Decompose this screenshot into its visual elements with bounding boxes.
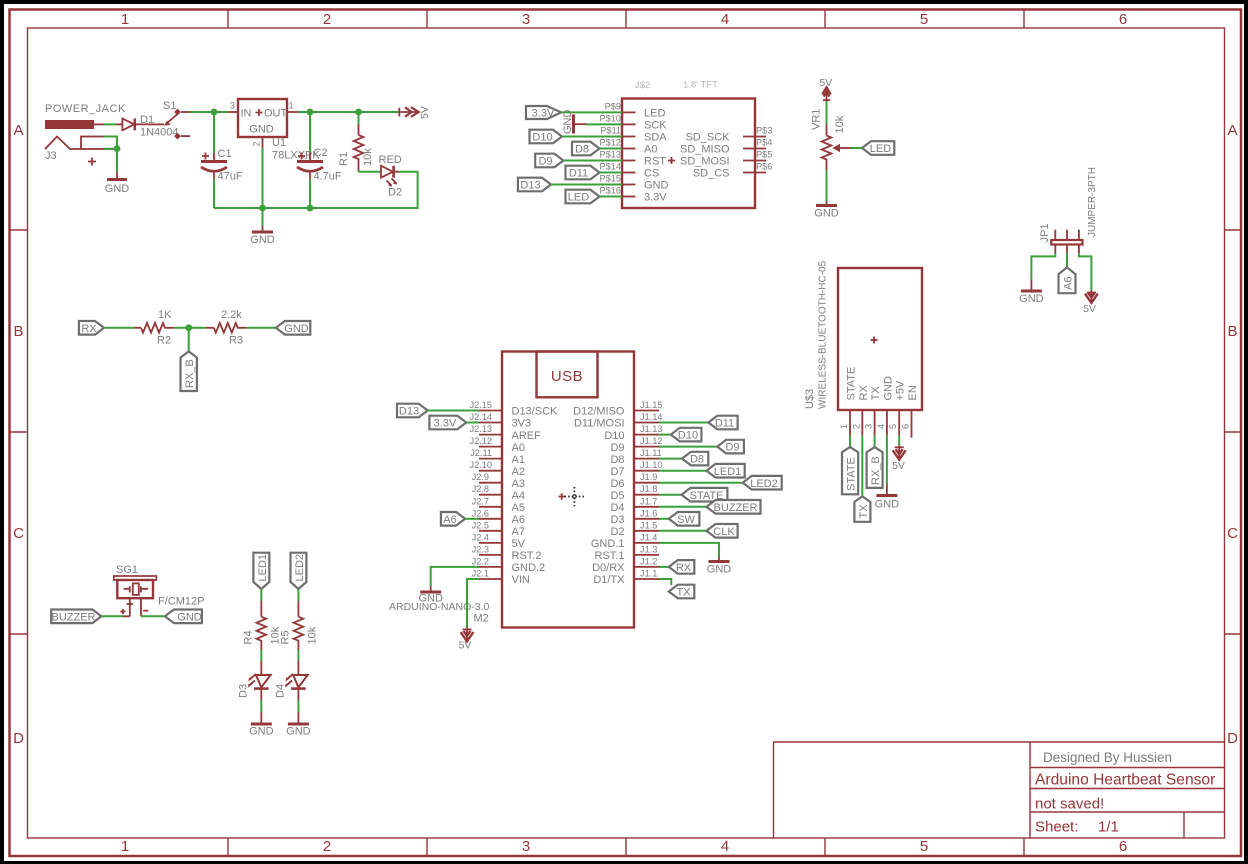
- ground symbol below U$3 pin4: [886, 484, 888, 495]
- svg-text:10k: 10k: [362, 148, 374, 166]
- svg-text:1: 1: [289, 101, 294, 111]
- net tag RX_B below U$3: [867, 447, 883, 488]
- wire D8 to A0 pin: [600, 148, 623, 150]
- net tag D8 at J2 A0: [572, 142, 600, 156]
- U$3 pin 4 GND: [886, 410, 888, 436]
- wire J1.8 to STATE tag: [659, 494, 682, 496]
- supply symbol 5V below VIN: [466, 627, 468, 640]
- svg-text:CLK: CLK: [713, 526, 735, 538]
- supply symbol 5V below JP1: [1090, 290, 1092, 302]
- J2 pin P$5 SD_MOSI: [743, 160, 766, 162]
- svg-text:B: B: [1227, 323, 1237, 340]
- diode D1 1N4004: [116, 123, 122, 125]
- svg-text:1K: 1K: [158, 309, 172, 321]
- M2 left pin stubs J2.15 to J2.1: [479, 411, 503, 580]
- title block outline: [774, 742, 1225, 838]
- svg-text:D3: D3: [238, 684, 250, 698]
- buzzer SG1 minus pin: [140, 598, 142, 616]
- net tag 3.3V at J2.14: [429, 416, 466, 430]
- svg-text:1: 1: [839, 424, 849, 429]
- arduino nano M2 box: [502, 352, 634, 628]
- buzzer SG1 top plate: [114, 576, 157, 580]
- svg-text:4: 4: [876, 424, 886, 429]
- U$3 origin cross: [871, 337, 878, 344]
- svg-text:JP1: JP1: [1039, 224, 1051, 243]
- svg-text:5V: 5V: [459, 640, 472, 652]
- svg-text:1N4004: 1N4004: [140, 127, 179, 139]
- net tag GND at divider end: [276, 321, 310, 335]
- wire R1 to D2: [359, 171, 382, 173]
- svg-text:GND: GND: [707, 564, 732, 576]
- svg-text:D3: D3: [610, 514, 624, 526]
- ground symbol below D4: [297, 712, 299, 724]
- net tag TX at J1.1: [669, 585, 695, 599]
- wire D4 to ground: [297, 689, 299, 700]
- wire J1.2 to RX tag: [659, 566, 669, 568]
- svg-text:SCK: SCK: [644, 120, 667, 132]
- wire D13 to GND pin: [551, 184, 622, 186]
- svg-text:USB: USB: [551, 368, 583, 385]
- wire D9 to RST pin: [563, 160, 622, 162]
- resistor R5: [297, 601, 299, 617]
- U$3 pin 6 EN: [911, 410, 913, 438]
- svg-text:1: 1: [121, 838, 129, 855]
- svg-text:Designed By Hussien: Designed By Hussien: [1043, 750, 1172, 765]
- svg-text:R5: R5: [280, 630, 292, 644]
- svg-text:J1.11: J1.11: [640, 448, 662, 458]
- net tag LED1 at J1.10: [707, 464, 745, 478]
- wire GND to SCK pin: [587, 123, 623, 125]
- svg-text:RST.2: RST.2: [512, 550, 542, 562]
- svg-text:JUMPER-3PTH: JUMPER-3PTH: [1087, 167, 1098, 237]
- svg-text:D1: D1: [140, 114, 154, 126]
- svg-text:J2.15: J2.15: [470, 400, 492, 410]
- svg-text:LED: LED: [568, 192, 589, 204]
- wire 3.3V tag to pin: [466, 422, 479, 424]
- wire D10 to SDA pin: [562, 136, 622, 138]
- buzzer SG1 plus pin: [123, 598, 130, 616]
- svg-text:D: D: [1227, 730, 1238, 747]
- svg-text:BUZZER: BUZZER: [714, 502, 758, 514]
- svg-text:RX: RX: [676, 562, 692, 574]
- wire R3 to GND tag: [247, 327, 276, 329]
- svg-text:SD_CS: SD_CS: [693, 168, 730, 180]
- net tag D8 at J1.11: [682, 452, 708, 466]
- svg-text:J2.8: J2.8: [472, 484, 489, 494]
- net tag STATE below U$3: [842, 447, 858, 494]
- wire RX tag to R2: [104, 327, 134, 329]
- M2 USB box: [537, 352, 598, 398]
- net tag LED at J2 3.3V: [566, 190, 600, 204]
- svg-text:D9: D9: [610, 442, 624, 454]
- svg-text:D10: D10: [678, 430, 698, 442]
- svg-text:R1: R1: [338, 152, 350, 166]
- svg-text:VR1: VR1: [811, 109, 823, 130]
- svg-text:A6: A6: [443, 514, 456, 526]
- svg-text:5V: 5V: [512, 538, 526, 550]
- connector J3 plus mark: [88, 158, 96, 166]
- svg-text:VIN: VIN: [512, 574, 530, 586]
- net tag RX at J1.2: [669, 560, 695, 574]
- svg-text:GND: GND: [249, 726, 274, 738]
- net tag BUZZER: [51, 610, 101, 624]
- svg-text:GND: GND: [250, 234, 275, 246]
- frame row ticks left: [10, 230, 28, 634]
- wire GND.2 to ground: [431, 567, 479, 586]
- svg-text:BUZZER: BUZZER: [52, 611, 96, 623]
- svg-text:GND: GND: [284, 323, 309, 335]
- svg-text:D0/RX: D0/RX: [592, 562, 625, 574]
- svg-text:D4: D4: [275, 684, 287, 698]
- svg-text:D2: D2: [388, 187, 402, 199]
- supply symbol 5V below U$3 pin5: [898, 445, 900, 458]
- frame column ticks top: [228, 10, 1024, 29]
- led D4: [293, 675, 308, 687]
- svg-text:RST: RST: [644, 156, 666, 168]
- svg-text:A: A: [1227, 122, 1237, 139]
- ground symbol below VR1: [826, 201, 828, 205]
- VR1 wiper arrow: [833, 144, 841, 153]
- wire JP1 pin3 to 5V: [1079, 253, 1092, 290]
- net tag LED2 at J1.9: [743, 476, 782, 490]
- bluetooth module U$3 box: [838, 268, 922, 410]
- svg-text:P$3: P$3: [756, 126, 772, 136]
- junction at RX_B node: [185, 324, 192, 331]
- svg-text:J1.12: J1.12: [640, 436, 662, 446]
- switch S1 common pin: [154, 123, 164, 125]
- wire D2 return loop to rail: [214, 172, 418, 208]
- svg-text:P$12: P$12: [600, 138, 621, 148]
- svg-text:D11/MOSI: D11/MOSI: [574, 418, 625, 430]
- svg-text:R4: R4: [243, 630, 255, 644]
- D2 led arrows: [387, 179, 397, 186]
- svg-text:6: 6: [901, 424, 911, 429]
- title block vertical divider: [1029, 742, 1031, 838]
- wire BUZZER tag to SG1: [101, 615, 123, 617]
- svg-text:GND: GND: [875, 499, 900, 511]
- svg-text:D10: D10: [604, 430, 624, 442]
- junction at C2 branch: [307, 109, 314, 116]
- svg-text:LED: LED: [644, 108, 665, 120]
- ground symbol rotated at J2 SCK: [572, 115, 575, 134]
- jumper JP1 body: [1051, 240, 1082, 245]
- wire J1.1 to TX tag: [659, 579, 671, 585]
- svg-text:SD_MOSI: SD_MOSI: [680, 156, 730, 168]
- svg-text:J1.1: J1.1: [640, 569, 657, 579]
- svg-text:TX: TX: [858, 504, 870, 519]
- resistor R4: [260, 601, 262, 617]
- svg-text:3.3V: 3.3V: [532, 108, 555, 120]
- svg-text:3.3V: 3.3V: [644, 192, 667, 204]
- junction rail at C2: [307, 205, 314, 212]
- svg-text:J1.13: J1.13: [640, 424, 662, 434]
- svg-text:LED2: LED2: [294, 554, 306, 582]
- led D3: [256, 675, 271, 687]
- svg-text:P$13: P$13: [600, 150, 621, 160]
- svg-text:D9: D9: [538, 156, 552, 168]
- wire S1 to regulator and rail: [190, 111, 228, 113]
- svg-text:C1: C1: [218, 148, 232, 160]
- svg-text:A: A: [13, 122, 23, 139]
- svg-text:GND: GND: [177, 611, 202, 623]
- U$3 pin 5 +5V: [898, 410, 900, 436]
- svg-text:3: 3: [230, 101, 235, 111]
- junction at R1 branch: [355, 109, 362, 116]
- wire SG1 minus to GND tag: [141, 615, 165, 617]
- svg-text:C: C: [1227, 525, 1238, 542]
- svg-text:D7: D7: [610, 466, 624, 478]
- svg-text:AREF: AREF: [512, 430, 542, 442]
- net tag D10 at J2 SDA: [530, 130, 563, 144]
- wire pin2 to TX tag: [861, 436, 863, 497]
- net tag A6 at J2.6: [441, 512, 465, 526]
- M2 right pin stubs J1.15 to J1.1: [634, 411, 659, 580]
- svg-text:J1.8: J1.8: [640, 484, 657, 494]
- ground symbol below rail: [262, 208, 264, 226]
- wire LED1 tag to R4: [260, 589, 262, 601]
- svg-text:1.8' TFT: 1.8' TFT: [683, 80, 718, 91]
- svg-text:EN: EN: [907, 385, 919, 400]
- svg-text:P$6: P$6: [756, 162, 772, 172]
- svg-text:J1.10: J1.10: [640, 460, 662, 470]
- svg-text:3V3: 3V3: [512, 418, 532, 430]
- svg-text:A0: A0: [512, 442, 525, 454]
- net tag LED1: [253, 553, 269, 589]
- svg-text:2: 2: [252, 141, 262, 146]
- J2 pin P$9 LED: [622, 111, 636, 113]
- svg-text:6: 6: [1119, 838, 1127, 855]
- svg-text:6: 6: [1119, 11, 1127, 28]
- svg-text:4.7uF: 4.7uF: [314, 171, 342, 183]
- wire net GND from J3 sleeve: [104, 137, 117, 173]
- svg-text:GND: GND: [644, 180, 669, 192]
- J2 pin P$4 SD_MISO: [743, 148, 766, 150]
- svg-text:D2: D2: [610, 526, 624, 538]
- svg-text:J1.15: J1.15: [640, 400, 662, 410]
- svg-text:D11: D11: [715, 418, 734, 430]
- svg-text:2: 2: [323, 838, 331, 855]
- svg-text:J3: J3: [45, 150, 57, 162]
- net tag 3.3V at J2 LED: [526, 106, 561, 119]
- svg-text:3: 3: [864, 424, 874, 429]
- svg-text:2.2k: 2.2k: [221, 309, 242, 321]
- svg-text:P$15: P$15: [600, 174, 621, 184]
- svg-text:SDA: SDA: [644, 132, 667, 144]
- junction rail at GND drop: [259, 205, 266, 212]
- svg-text:A0: A0: [644, 144, 657, 156]
- net tag BUZZER at J1.7: [707, 500, 761, 514]
- svg-text:P$4: P$4: [756, 138, 772, 148]
- net tag D11 at J1.14: [708, 416, 737, 430]
- svg-text:SD_SCK: SD_SCK: [685, 132, 730, 144]
- svg-text:F/CM12P: F/CM12P: [158, 596, 204, 608]
- svg-text:S1: S1: [163, 100, 176, 112]
- resistor R2: [134, 327, 141, 329]
- svg-text:U$3: U$3: [804, 389, 816, 409]
- svg-text:J1.2: J1.2: [640, 556, 657, 566]
- led D2 RED: [381, 166, 393, 178]
- svg-text:CS: CS: [644, 168, 659, 180]
- svg-text:A3: A3: [512, 478, 525, 490]
- wire 3.3V to LED pin: [561, 111, 622, 113]
- svg-text:4: 4: [721, 838, 729, 855]
- wire LED2 tag to R5: [297, 589, 299, 601]
- svg-text:D8: D8: [690, 454, 704, 466]
- title block row lines: [1030, 768, 1224, 813]
- svg-text:RST.1: RST.1: [595, 550, 625, 562]
- junction at J3 sleeve corner: [114, 145, 121, 152]
- ground symbol below GND.2: [430, 586, 432, 591]
- net tag D9 at J1.12: [717, 440, 744, 454]
- J2 pin P$14 CS: [622, 172, 636, 174]
- svg-text:A4: A4: [512, 490, 525, 502]
- net tag A6 below JP1: [1059, 267, 1076, 293]
- svg-text:D8: D8: [575, 144, 589, 156]
- svg-text:D6: D6: [610, 478, 624, 490]
- wire J1.5 to CLK tag: [659, 530, 707, 532]
- svg-text:D13/SCK: D13/SCK: [512, 406, 559, 418]
- U1 pin 1 OUT: [287, 111, 298, 113]
- svg-text:D1/TX: D1/TX: [593, 574, 625, 586]
- net tag GND at SG1: [165, 610, 202, 624]
- svg-text:GND.2: GND.2: [512, 562, 546, 574]
- svg-text:WIRELESS-BLUETOOTH-HC-05: WIRELESS-BLUETOOTH-HC-05: [818, 260, 829, 409]
- wire D11 to CS pin: [600, 172, 623, 174]
- svg-text:2: 2: [851, 424, 861, 429]
- U$3 pin 3 TX: [874, 410, 876, 436]
- svg-text:STATE: STATE: [846, 457, 858, 491]
- svg-text:SW: SW: [677, 514, 695, 526]
- svg-text:47uF: 47uF: [218, 171, 243, 183]
- U$3 pin 2 RX: [861, 410, 863, 436]
- svg-text:J2.1: J2.1: [472, 569, 489, 579]
- svg-text:4: 4: [721, 11, 729, 28]
- svg-text:J1.6: J1.6: [640, 508, 657, 518]
- svg-text:D13: D13: [520, 180, 540, 192]
- svg-text:D9: D9: [725, 442, 739, 454]
- J2 pin P$6 SD_CS: [743, 172, 766, 174]
- J2 pin P$15 GND: [622, 184, 636, 186]
- M2 origin cross: [559, 493, 565, 499]
- svg-text:2: 2: [323, 11, 331, 28]
- capacitor C2: [309, 112, 311, 153]
- wire JP1 pin2 to A6 tag: [1066, 253, 1068, 267]
- svg-text:C2: C2: [314, 147, 328, 159]
- buzzer SG1 crystal marks: [133, 583, 139, 595]
- svg-text:GND.1: GND.1: [591, 538, 625, 550]
- wire A6 tag to pin: [465, 518, 479, 520]
- svg-text:A7: A7: [512, 526, 525, 538]
- svg-text:GND: GND: [562, 110, 574, 135]
- svg-text:J2.12: J2.12: [470, 436, 492, 446]
- frame row ticks right: [1225, 230, 1242, 634]
- net tag CLK at J1.5: [707, 524, 738, 538]
- svg-text:STATE: STATE: [846, 367, 858, 401]
- wire R2 to R3 with junction: [174, 327, 206, 329]
- wire D3 to ground: [260, 689, 262, 700]
- svg-text:IN: IN: [241, 108, 252, 120]
- svg-text:POWER_JACK: POWER_JACK: [45, 103, 126, 115]
- svg-text:J1.5: J1.5: [640, 520, 657, 530]
- net tag D13 at J2.15: [397, 404, 428, 418]
- ground symbol at GND.1: [718, 557, 720, 561]
- svg-text:5V: 5V: [1083, 303, 1096, 315]
- U1 pin 3 IN: [228, 111, 239, 113]
- svg-text:D5: D5: [610, 490, 624, 502]
- svg-text:J2.4: J2.4: [472, 532, 489, 542]
- svg-text:OUT: OUT: [264, 108, 288, 120]
- switch S1 lever: [167, 114, 178, 124]
- svg-text:P$10: P$10: [600, 114, 621, 124]
- svg-text:RX: RX: [81, 323, 97, 335]
- svg-text:5: 5: [920, 838, 928, 855]
- net tag D13 at J2 GND: [518, 178, 551, 192]
- wire JP1 pin1 to GND: [1031, 253, 1055, 279]
- svg-text:TX: TX: [676, 587, 691, 599]
- buzzer SG1 body: [117, 580, 153, 598]
- net tag LED2: [291, 553, 307, 589]
- svg-text:R2: R2: [157, 335, 171, 347]
- svg-text:GND: GND: [286, 726, 311, 738]
- net tag TX below U$3: [854, 496, 870, 522]
- wire pin4 to GND: [886, 436, 888, 484]
- wire 5V to VR1: [826, 101, 828, 125]
- net tag SW at J1.6: [669, 512, 700, 526]
- JP1 pin stubs below: [1055, 245, 1079, 254]
- svg-text:P$16: P$16: [600, 186, 621, 196]
- svg-text:J2.10: J2.10: [470, 460, 492, 470]
- svg-text:RX_B: RX_B: [184, 359, 196, 388]
- wire J1.7 to BUZZER tag: [659, 506, 707, 508]
- svg-text:M2: M2: [474, 613, 489, 625]
- svg-text:1: 1: [121, 11, 129, 28]
- svg-text:J1.3: J1.3: [640, 544, 657, 554]
- svg-text:J2.7: J2.7: [472, 496, 489, 506]
- svg-text:LED1: LED1: [714, 466, 742, 478]
- connector J3 sleeve zigzag: [45, 137, 81, 150]
- J2 pin P$10 SCK: [622, 123, 636, 125]
- svg-text:3: 3: [522, 838, 530, 855]
- U$3 pin 1 STATE: [849, 410, 851, 436]
- svg-text:5V: 5V: [892, 460, 905, 472]
- J2 pin P$3 SD_SCK: [743, 136, 766, 138]
- svg-text:GND: GND: [105, 183, 130, 195]
- U1 pin 2 GND: [262, 137, 264, 148]
- svg-text:TX: TX: [870, 386, 882, 401]
- wire J1.10 to LED1 tag: [659, 470, 707, 472]
- svg-text:A2: A2: [512, 466, 525, 478]
- resistor R3: [206, 327, 214, 329]
- svg-text:P$11: P$11: [600, 126, 621, 136]
- wire pin3 to RX_B tag: [874, 436, 876, 447]
- svg-text:5V: 5V: [419, 106, 431, 119]
- svg-text:J2.3: J2.3: [472, 544, 489, 554]
- svg-text:GND: GND: [418, 593, 443, 605]
- switch S1 top contact: [174, 109, 181, 116]
- svg-text:A5: A5: [512, 502, 525, 514]
- svg-text:D: D: [13, 730, 24, 747]
- svg-text:GND: GND: [249, 124, 274, 136]
- svg-text:P$9: P$9: [605, 102, 621, 112]
- wire J1.6 to SW tag: [659, 518, 669, 520]
- svg-text:C: C: [13, 525, 24, 542]
- svg-text:A1: A1: [512, 454, 525, 466]
- svg-text:1/1: 1/1: [1098, 819, 1119, 836]
- svg-text:D10: D10: [532, 132, 552, 144]
- svg-text:10k: 10k: [834, 115, 846, 133]
- wire LED to 3.3V pin: [600, 196, 623, 198]
- svg-text:P$14: P$14: [600, 162, 621, 172]
